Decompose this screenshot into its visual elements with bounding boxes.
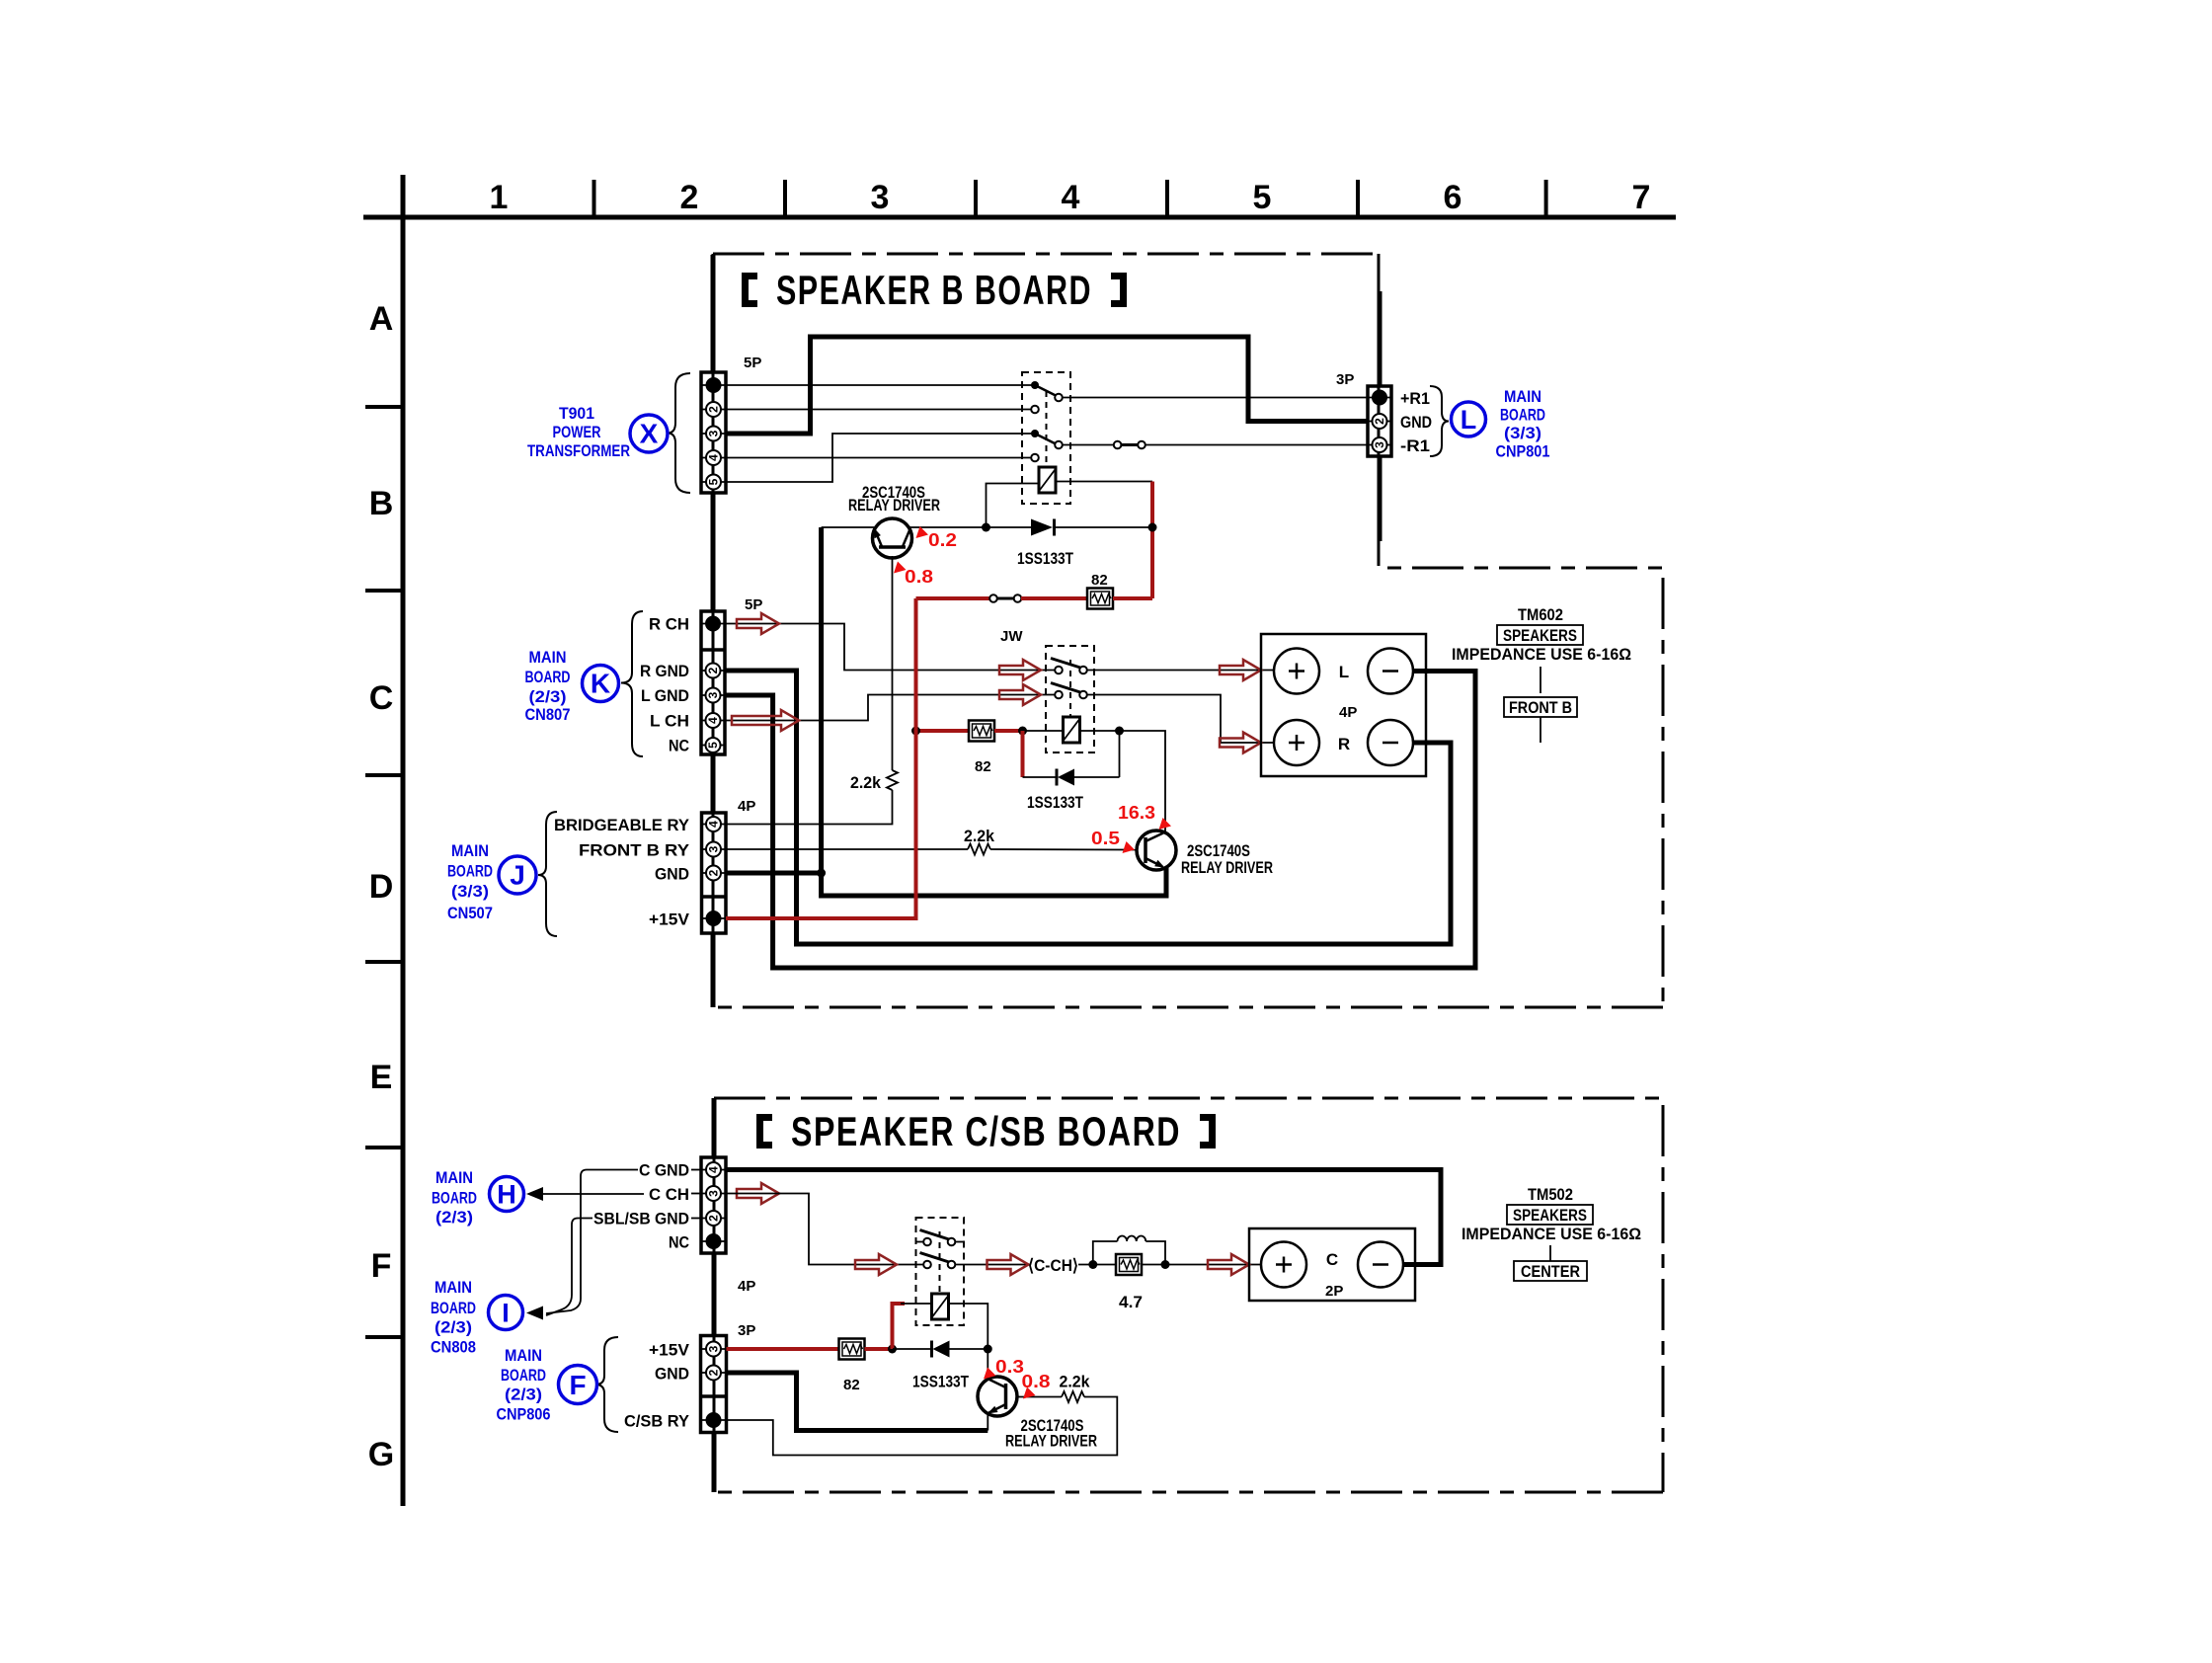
pin 4 X [706,450,721,465]
svg-text:3: 3 [707,430,721,436]
brace connector F [595,1337,618,1432]
resistor 4.7 [1116,1254,1142,1275]
relay RY1 coil [1039,467,1056,493]
svg-text:3: 3 [706,691,720,698]
wire stubs label to pins [691,1170,701,1219]
svg-text:4: 4 [707,1166,721,1173]
relay RY3 switch 2 (C CH) [920,1253,956,1269]
svg-text:16.3: 16.3 [1118,803,1155,823]
junction +15V node RY3 [888,1345,897,1354]
svg-text:-R1: -R1 [1400,436,1430,455]
speaker terminal TM502 box [1249,1228,1415,1301]
svg-text:3: 3 [1373,441,1386,448]
relay RY3 dashed box [916,1218,965,1325]
pin 2 K [706,664,721,678]
pin 1 X [706,377,722,393]
svg-text:RELAY DRIVER: RELAY DRIVER [1181,858,1273,877]
wire C GND thick to speaker C- [726,1170,1441,1265]
signal arrow into RY3 [855,1254,897,1275]
svg-text:2P: 2P [1325,1283,1343,1300]
svg-text:F: F [371,1247,392,1285]
SPEAKER C/SB BOARD outline [714,1098,1663,1492]
svg-text:4.7: 4.7 [1119,1293,1143,1311]
svg-text:(2/3): (2/3) [435,1208,473,1227]
SPEAKER B BOARD title [742,267,1127,313]
svg-text:(3/3): (3/3) [451,882,489,901]
node I circle [489,1296,523,1330]
svg-text:R: R [1338,735,1350,753]
wire R GND thick to speaker R- [725,671,1451,944]
MAIN BOARD (3/3) CNP801 label [1496,387,1550,461]
signal arrow R CH [737,613,779,634]
node L circle [1452,402,1486,436]
svg-text:7: 7 [1632,179,1651,216]
pin 2 F (GND) [706,1366,721,1381]
svg-text:A: A [369,300,394,338]
resistor 2.2k (bridgeable) vertical [887,770,898,790]
svg-text:MAIN: MAIN [434,1278,472,1297]
svg-text:C CH: C CH [649,1185,689,1204]
speaker terminal TM602 box [1261,634,1426,776]
svg-text:GND: GND [655,865,689,884]
wire RY3 switch2 out [955,1264,1027,1266]
svg-text:CN808: CN808 [431,1338,476,1357]
svg-text:POWER: POWER [553,423,601,441]
wire C GND label to node H/I bundle [546,1170,638,1314]
svg-text:1SS133T: 1SS133T [1027,793,1083,812]
svg-text:1SS133T: 1SS133T [1017,549,1073,568]
svg-text:J: J [510,860,525,891]
pin 5 K [706,738,721,752]
svg-text:4P: 4P [738,798,755,815]
relay RY1 switch 1 [1031,381,1063,413]
relay RY2 dashed box [1046,646,1094,752]
MAIN BOARD (3/3) CN507 label [447,841,493,922]
svg-text:IMPEDANCE USE 6-16Ω: IMPEDANCE USE 6-16Ω [1452,645,1631,664]
pin 5 X [706,475,721,490]
svg-text:MAIN: MAIN [529,648,567,667]
MAIN BOARD (2/3) label H [432,1168,477,1227]
pin 4 J [706,817,721,831]
wire X pin3 GND thick to CNP801 GND [726,337,1369,434]
wire L GND thick to speaker L- [725,672,1475,969]
pin 1 L (+R1) [1372,390,1387,406]
svg-text:+15V: +15V [649,1341,690,1360]
svg-text:C/SB RY: C/SB RY [624,1412,690,1431]
node F circle [559,1366,597,1404]
terminal R+ [1274,720,1319,765]
resistor 2.2k (Q3 base) [1062,1391,1084,1402]
svg-text:5P: 5P [745,596,762,613]
wire RY3 coil right to Q3 collector [949,1304,988,1378]
wire network to speaker C+ [1142,1264,1262,1266]
arrow into node H [526,1187,543,1201]
+15V red wire to RY2 coil row [916,729,970,733]
pin labels L [1400,389,1432,455]
voltage 0.5 at Q2 base [1091,829,1135,853]
pin labels C/SB 4P [593,1161,689,1252]
junction +15V drop to D2 [1018,727,1027,736]
FRONT B tag [1504,667,1577,743]
svg-text:1: 1 [490,179,509,216]
svg-text:BOARD: BOARD [1500,406,1545,425]
relay RY3 switch 1 (spare) [916,1230,965,1246]
wire SBL/SB GND label to node I bundle [546,1219,592,1316]
svg-text:X: X [640,419,659,449]
connector X stem wire [713,255,714,1492]
T901 POWER TRANSFORMER label [527,404,630,460]
resistor 82 (JW row) [1087,589,1113,609]
relay RY3 coil [932,1294,949,1319]
svg-text:C: C [369,679,394,717]
pin 2 X [706,402,721,417]
label TM602 SPEAKERS IMPEDANCE [1452,605,1631,664]
svg-text:3P: 3P [1336,371,1354,388]
svg-text:BOARD: BOARD [431,1299,476,1317]
svg-text:2: 2 [707,869,721,876]
svg-text:CN507: CN507 [447,904,493,922]
SPEAKER B BOARD outline [713,254,1663,1007]
connector L (CNP801 3P) [1368,386,1391,456]
wire RY1 coil left to D1 node [987,484,1040,528]
svg-text:(2/3): (2/3) [505,1386,542,1404]
wire +15V red from J pin1 [726,598,916,918]
wire Q1 emitter to GND [822,526,874,528]
svg-text:GND: GND [1400,413,1432,432]
transistor Q2 2SC1740S relay driver [1137,831,1176,870]
signal arrow to C+ [1208,1254,1249,1275]
svg-text:1SS133T: 1SS133T [912,1373,969,1391]
svg-text:(2/3): (2/3) [529,687,567,706]
wire X pin2 to relay NC [726,409,1032,411]
pin 3 X [706,427,721,441]
svg-text:SBL/SB GND: SBL/SB GND [593,1210,689,1228]
connector J (CN507 4P) [702,813,727,933]
svg-text:BOARD: BOARD [447,862,493,881]
wire GND thick F pin2 to Q3 emitter [727,1373,988,1431]
svg-text:⟨C-CH⟩: ⟨C-CH⟩ [1028,1256,1078,1275]
diode D3 1SS133T [893,1341,987,1358]
label TM502 SPEAKERS IMPEDANCE [1461,1185,1641,1243]
resistor 2.2k (front B relay base) [968,844,990,855]
relay RY2 coil [1064,717,1080,743]
pin 2 J [706,866,721,881]
wire X pin5 to relay common [726,434,1032,482]
svg-text:CNP806: CNP806 [497,1405,551,1424]
svg-text:CNP801: CNP801 [1496,442,1550,461]
transistor Q1 2SC1740S relay driver [873,518,912,558]
terminal R- [1368,720,1413,765]
MAIN BOARD (2/3) CNP806 label F [497,1346,551,1424]
pin 4 K [706,713,721,728]
brace connector X [668,373,690,493]
svg-text:2: 2 [680,179,699,216]
svg-text:FRONT B RY: FRONT B RY [579,841,690,860]
junction D3 cathode / Q3 collector [984,1345,992,1354]
svg-text:GND: GND [655,1365,689,1384]
CENTER tag [1514,1245,1587,1281]
svg-text:I: I [502,1299,510,1328]
svg-text:C: C [1326,1250,1338,1269]
junction D1 cathode node [1148,523,1157,532]
node J circle [499,856,536,894]
wire C CH to RY3 [726,1194,924,1265]
svg-text:SPEAKERS: SPEAKERS [1503,626,1577,645]
svg-text:G: G [368,1436,394,1473]
wire 82 to +15V vertical [1113,596,1152,600]
svg-text:0.5: 0.5 [1091,829,1120,848]
voltage 16.3 at Q2 collector [1118,803,1171,830]
wire RY2 switch1 to speaker L+ [1086,670,1275,672]
svg-text:B: B [369,485,394,522]
svg-text:IMPEDANCE USE 6-16Ω: IMPEDANCE USE 6-16Ω [1461,1225,1641,1243]
svg-text:RELAY DRIVER: RELAY DRIVER [1005,1432,1097,1451]
brace connector K [621,611,643,756]
svg-text:L: L [1339,663,1349,681]
svg-text:BOARD: BOARD [432,1189,477,1208]
wire +15V feed RY1 (dark red) [1150,482,1154,599]
svg-text:6: 6 [1444,179,1462,216]
svg-text:SPEAKER C/SB BOARD: SPEAKER C/SB BOARD [791,1108,1181,1154]
wire R CH to RY2 [725,624,1056,671]
voltage 0.8 at Q1 base [894,562,933,588]
svg-text:5: 5 [707,478,721,485]
svg-text:NC: NC [669,737,689,755]
wire X pin1 to relay [726,384,1032,386]
relay RY2 switch 2 [1051,683,1087,699]
svg-text:MAIN: MAIN [435,1168,473,1187]
pin 2 L [1373,414,1387,429]
svg-text:2.2k: 2.2k [850,773,882,792]
wire X pin4 to relay NC [726,457,1032,459]
svg-text:C GND: C GND [639,1161,689,1180]
wire C-CH to LR network [1078,1264,1116,1266]
signal arrow after RY3 [987,1254,1029,1275]
grid ruler [363,175,1676,1506]
svg-text:4P: 4P [1339,704,1357,721]
svg-text:D: D [369,868,394,906]
brace connector J [538,812,557,936]
connector K (CN807 5P) [701,611,725,754]
svg-text:MAIN: MAIN [505,1346,542,1365]
jumper on -R1 wire [1114,441,1145,449]
svg-text:82: 82 [843,1377,860,1393]
svg-text:NC: NC [669,1233,689,1252]
svg-text:JW: JW [1000,628,1023,645]
transistor Q3 2SC1740S relay driver [978,1377,1017,1416]
pin 3 L [1373,437,1387,452]
SPEAKER C/SB BOARD title [756,1108,1216,1154]
svg-text:T901: T901 [559,404,594,423]
junction +15V at red vertical [911,727,920,736]
signal arrow L CH [732,710,799,731]
svg-text:TM502: TM502 [1528,1185,1573,1204]
wire RY3 coil left [901,1303,932,1305]
pin 4 (C GND) [706,1162,721,1177]
svg-text:(3/3): (3/3) [1504,424,1541,442]
wire 82 to +15V node [865,1347,893,1351]
wire 2.2k to BRIDGEABLE RY pin [726,790,893,825]
pin 1 K (R CH) [705,616,721,632]
svg-text:L: L [1461,405,1477,435]
MAIN BOARD (2/3) CN808 label I [431,1278,476,1357]
svg-text:FRONT B: FRONT B [1509,698,1572,717]
voltage 0.3 at Q3 collector [984,1357,1024,1380]
wire FRONT B RY to 2.2k [726,848,968,850]
svg-text:L GND: L GND [641,686,689,705]
svg-text:RELAY DRIVER: RELAY DRIVER [848,496,940,515]
svg-text:SPEAKER B BOARD: SPEAKER B BOARD [776,267,1092,313]
pin 1 (NC) [706,1233,722,1249]
svg-text:5: 5 [1253,179,1272,216]
wire RY2 switch2 to speaker R+ [1086,695,1275,744]
pin labels J [554,816,690,929]
svg-text:4P: 4P [738,1278,755,1295]
svg-text:3: 3 [707,1190,721,1197]
svg-text:BOARD: BOARD [501,1366,546,1385]
wire +R1 from RY1 to CNP801 [1062,397,1369,399]
svg-text:MAIN: MAIN [451,841,489,860]
wire L CH to RY2 [725,695,1056,721]
pin labels K [640,615,689,755]
svg-text:4: 4 [706,717,720,724]
svg-text:SPEAKERS: SPEAKERS [1513,1206,1587,1225]
svg-text:4: 4 [707,454,721,461]
diode D1 1SS133T [1031,519,1152,536]
svg-text:2: 2 [1373,418,1386,425]
voltage 0.2 at Q1 collector [916,526,958,550]
wire RY2 coil right to Q2 collector node [1080,731,1166,833]
svg-text:0.3: 0.3 [995,1357,1024,1377]
junction coil1 left / D1 anode [982,523,990,532]
wire +15V red F pin3 to 82 [727,1347,839,1351]
node K circle [583,666,619,702]
connector X (T901 5P) [701,372,726,493]
signal arrow C CH at pin [737,1183,779,1204]
pin 2 (SBL/SB GND) [706,1211,721,1226]
wire -R1 from RY1 to CNP801 [1062,444,1369,446]
svg-text:TM602: TM602 [1518,605,1563,624]
wire C CH label to node H [539,1193,644,1195]
svg-text:4: 4 [707,821,721,828]
svg-text:0.8: 0.8 [1022,1372,1051,1391]
wire Q1 collector to D1 [909,526,1032,528]
terminal C- [1358,1242,1403,1288]
pin labels F [624,1341,690,1431]
svg-text:+R1: +R1 [1400,389,1430,408]
connector F (CNP806 3P) [701,1336,727,1433]
pin 3 F (+15V) [706,1342,721,1357]
signal arrow to L+ [1220,660,1261,680]
svg-text:TRANSFORMER: TRANSFORMER [527,441,630,460]
svg-text:3: 3 [871,179,890,216]
signal arrow to R+ [1220,733,1261,753]
brace connector L [1430,386,1449,456]
wire 82 to coil RY2 [994,729,1023,733]
svg-text:(2/3): (2/3) [434,1318,472,1337]
inductor (parallel with 4.7) [1093,1236,1165,1265]
svg-text:2: 2 [707,1215,721,1222]
wire C/SB RY to Q3 base resistor [727,1397,1118,1456]
svg-text:2: 2 [707,406,721,413]
wire GND thick J pin2 [726,527,822,873]
wire +15V red up to RY3 coil [893,1304,906,1349]
signal arrow into RY2 upper [999,660,1041,680]
svg-text:2.2k: 2.2k [964,827,995,845]
svg-text:82: 82 [975,758,991,775]
junction RY2 node to D2 cathode [1115,727,1124,736]
svg-text:2.2k: 2.2k [1060,1373,1091,1391]
terminal L+ [1274,649,1319,694]
wire 2.2k to Q3 base [1017,1396,1062,1398]
svg-text:CN807: CN807 [525,705,571,724]
diode D2 1SS133T [1023,731,1120,786]
wire Q1 base to 2.2k [892,556,894,770]
svg-text:2: 2 [706,667,720,673]
MAIN BOARD (2/3) CN807 label [525,648,571,724]
JW jumper row (dark red +15V feed) [916,594,1088,602]
connector 4P C/SB board [701,1157,726,1253]
svg-text:L CH: L CH [650,712,689,731]
resistor 82 (RY3 coil) [839,1339,865,1360]
svg-text:K: K [591,669,610,699]
relay RY2 switch 1 [1051,659,1087,674]
svg-text:4: 4 [1062,179,1080,216]
terminal L- [1368,649,1413,694]
wire RY1 coil right [1056,481,1152,483]
svg-text:82: 82 [1091,572,1108,589]
node H circle [490,1177,524,1212]
connector L (CNP801 3P) stem [1378,291,1382,541]
pin 3 K [706,688,721,703]
svg-text:0.8: 0.8 [905,567,933,587]
svg-text:BRIDGEABLE RY: BRIDGEABLE RY [554,816,690,834]
svg-text:3: 3 [707,1345,721,1352]
svg-text:2: 2 [707,1369,721,1376]
svg-text:F: F [569,1370,586,1400]
signal arrow into RY2 lower [999,684,1041,705]
wire 2.2k to Q2 base [990,848,1138,851]
node X circle [630,415,668,452]
resistor 82 (RY2 coil) [969,721,994,742]
relay RY1 dashed box [1022,372,1070,504]
pin 3 (C CH) [706,1186,721,1201]
svg-text:R CH: R CH [649,615,689,634]
svg-text:5P: 5P [744,355,761,371]
svg-text:CENTER: CENTER [1521,1262,1580,1281]
svg-text:H: H [497,1180,516,1210]
svg-text:3: 3 [707,845,721,852]
pin 3 J [706,842,721,857]
svg-text:0.2: 0.2 [928,530,957,550]
arrow into node I [526,1307,543,1320]
relay RY1 switch 2 [1031,430,1063,461]
junction LR network right [1161,1260,1170,1269]
svg-text:R GND: R GND [640,662,689,680]
voltage 0.8 at Q3 base [1022,1372,1051,1399]
svg-text:+15V: +15V [649,911,690,929]
junction GND [817,869,826,878]
svg-text:5: 5 [706,742,720,749]
wire +15V down to D2 anode (dark red) [1021,731,1025,777]
svg-text:E: E [370,1059,393,1096]
svg-text:BOARD: BOARD [525,668,571,686]
svg-text:3P: 3P [738,1322,755,1339]
terminal C+ [1261,1242,1306,1288]
svg-text:MAIN: MAIN [1504,387,1541,406]
pin 1 F (C/SB RY) [706,1412,722,1428]
junction LR network left [1088,1260,1097,1269]
